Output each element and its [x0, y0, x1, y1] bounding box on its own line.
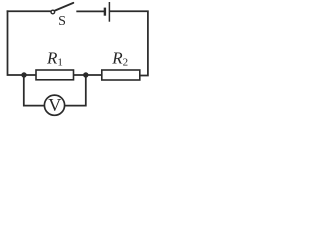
svg-text:S: S — [58, 14, 66, 29]
svg-text:V: V — [48, 95, 61, 115]
svg-text:R2: R2 — [111, 48, 128, 68]
svg-text:R1: R1 — [46, 49, 63, 69]
